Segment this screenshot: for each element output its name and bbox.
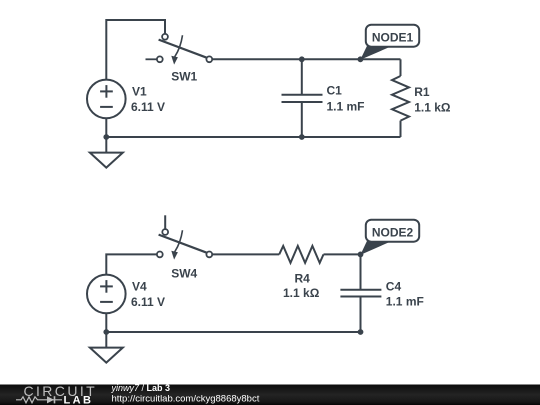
svg-text:1.1 mF: 1.1 mF: [327, 100, 365, 114]
voltage source V1: [87, 80, 126, 119]
junction dot V1 bottom: [103, 134, 109, 140]
resistor R1: [392, 76, 409, 121]
svg-text:C1: C1: [327, 84, 343, 98]
svg-text:NODE1: NODE1: [372, 31, 414, 45]
svg-text:yinwy7 / Lab 3: yinwy7 / Lab 3: [111, 383, 171, 393]
wire SW4 right to R4: [212, 253, 279, 255]
junction dot C4 bottom: [358, 329, 364, 335]
svg-text:R1: R1: [414, 85, 430, 99]
svg-text:SW4: SW4: [171, 266, 197, 280]
resistor R4: [279, 246, 323, 263]
SW1 right terminal circle: [206, 56, 212, 62]
wire V4 top to SW4 left: [106, 254, 157, 275]
svg-text:http://circuitlab.com/ckyg8868: http://circuitlab.com/ckyg8868y8bct: [112, 393, 260, 404]
SW4 left terminal circle: [157, 252, 163, 258]
svg-text:LAB: LAB: [64, 394, 94, 405]
wire SW4 top stub: [164, 215, 166, 229]
svg-text:C4: C4: [386, 280, 402, 294]
svg-text:R4: R4: [295, 272, 311, 286]
node NODE1 callout box: [366, 25, 419, 47]
svg-text:NODE2: NODE2: [372, 226, 414, 240]
wire V1 top to SW1: [106, 20, 165, 80]
svg-text:SW1: SW1: [171, 69, 197, 83]
node NODE2 callout box: [366, 220, 419, 242]
SW4 right terminal circle: [206, 252, 212, 258]
CircuitLab logo diode: [47, 396, 54, 403]
ground circuit 1: [90, 153, 123, 168]
junction dot V4 bottom: [103, 329, 109, 335]
node NODE2 callout tail: [360, 240, 391, 255]
wire SW1 right terminal to R1 top: [212, 58, 400, 60]
wire bottom rail circuit 2: [106, 331, 360, 333]
svg-text:6.11 V: 6.11 V: [131, 100, 165, 114]
footer bar: [0, 385, 540, 405]
wire R1 right branch down: [400, 59, 402, 76]
voltage source V4: [87, 275, 126, 314]
SW1 left throw stub: [146, 58, 157, 60]
SW4 top terminal circle: [162, 229, 168, 235]
SW4 blade: [159, 235, 207, 253]
SW4 actuation arrow: [175, 230, 183, 252]
wire V1 bottom to ground: [105, 118, 107, 152]
node NODE1 callout tail: [360, 45, 391, 60]
ground circuit 2: [90, 348, 123, 363]
wire R4 to NODE2: [324, 253, 361, 255]
svg-text:1.1 kΩ: 1.1 kΩ: [414, 100, 451, 114]
capacitor C4: [340, 290, 381, 297]
wire bottom rail circuit 1: [106, 136, 400, 138]
svg-text:1.1 kΩ: 1.1 kΩ: [283, 286, 320, 300]
switch SW4: [157, 229, 212, 260]
capacitor C1: [282, 95, 323, 102]
wire V4 bottom to ground: [105, 313, 107, 347]
wire C4 top lead: [360, 254, 362, 289]
wire C1 top lead: [301, 59, 303, 94]
node NODE1 dot: [358, 56, 364, 62]
SW1 left terminal circle: [157, 56, 163, 62]
SW1 top terminal circle: [162, 34, 168, 40]
svg-text:V4: V4: [132, 280, 147, 294]
wire R1 bottom: [400, 121, 402, 137]
junction dot C1 top: [299, 56, 305, 62]
switch SW1: [146, 34, 213, 65]
wire C4 bottom lead: [360, 297, 362, 333]
svg-text:6.11 V: 6.11 V: [131, 295, 165, 309]
SW1 actuation arrow: [175, 35, 183, 57]
SW1 blade: [159, 40, 207, 58]
CircuitLab logo resistor squiggle: [16, 397, 45, 403]
wire C1 bottom lead: [301, 102, 303, 137]
junction dot C1 bottom: [299, 134, 305, 140]
svg-text:1.1 mF: 1.1 mF: [386, 295, 424, 309]
node NODE2 dot: [358, 252, 364, 258]
svg-text:V1: V1: [132, 85, 147, 99]
